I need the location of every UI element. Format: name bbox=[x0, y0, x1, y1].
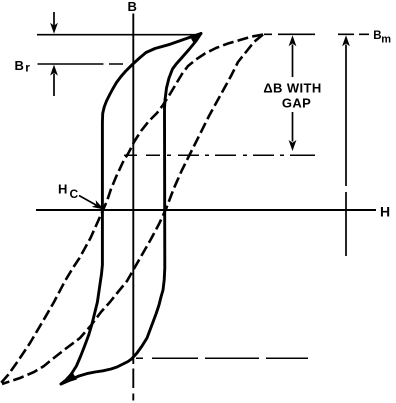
up arrow to Br line bbox=[53, 74, 55, 97]
delta-B arrow (double headed) bbox=[289, 35, 297, 46]
svg-text:H: H bbox=[380, 204, 390, 220]
svg-text:H: H bbox=[58, 182, 67, 197]
H axis bbox=[36, 209, 376, 211]
svg-text:B: B bbox=[128, 0, 137, 14]
solid loop top-right cusp wedge bbox=[191, 34, 202, 44]
middle dash-dot level line (Br with gap) bbox=[124, 154, 315, 156]
Bm level line left bbox=[37, 34, 198, 36]
svg-text:m: m bbox=[381, 34, 391, 46]
svg-text:C: C bbox=[70, 187, 79, 201]
Br level line bbox=[38, 63, 124, 65]
Bm measure vertical line bbox=[342, 35, 350, 46]
svg-text:GAP: GAP bbox=[282, 96, 311, 111]
svg-text:r: r bbox=[25, 61, 30, 75]
bottom dashed level line bbox=[136, 357, 308, 359]
svg-text:B: B bbox=[15, 58, 24, 73]
dashed loop lower branch (gapped core) bbox=[2, 35, 263, 385]
solid loop bottom-left cusp wedge bbox=[61, 372, 78, 385]
dashed loop upper branch (gapped core) bbox=[1, 35, 263, 384]
svg-text:ΔB WITH: ΔB WITH bbox=[263, 81, 321, 96]
solid loop lower (ascending) branch bbox=[61, 34, 201, 385]
Hc arrow bbox=[79, 196, 96, 206]
down arrow to Bm line bbox=[53, 12, 55, 26]
solid loop upper (descending) branch bbox=[61, 34, 201, 385]
B axis bbox=[132, 14, 134, 401]
Bm level dash-dot line right bbox=[264, 33, 369, 35]
